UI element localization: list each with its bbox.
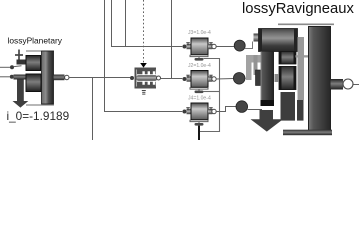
wire J4 to ravigneaux carrier	[216, 107, 236, 112]
ravigneaux carrier light column right	[298, 37, 305, 100]
ravigneaux bottom housing bar	[283, 130, 332, 136]
ravigneaux flange stub sun1 shaft	[254, 34, 259, 42]
svg-text:J4=1.0e-4: J4=1.0e-4	[188, 96, 211, 102]
node ravigneaux connector 1	[234, 40, 245, 51]
planetary sun shaft	[14, 75, 27, 80]
ravigneaux long planet gear	[259, 29, 298, 52]
wire under loss arrow	[248, 109, 262, 111]
clutch C1 friction teeth bottom	[137, 82, 156, 87]
node ravigneaux connector 3	[236, 101, 248, 113]
inertia J3	[183, 38, 217, 61]
clutch C1 housing	[135, 68, 157, 89]
wire connector1 to stub	[245, 42, 253, 49]
wire branch down from main axis	[92, 78, 94, 141]
ravigneaux carrier top line	[278, 23, 334, 25]
wire planetary output to clutch	[69, 77, 130, 79]
clutch C1 control arrow	[140, 63, 147, 68]
wire dashed control signal to clutch	[143, 0, 145, 63]
svg-text:J2=1.0e-4: J2=1.0e-4	[188, 63, 211, 69]
wire sun flange_a left	[0, 76, 10, 78]
clutch C1 left flange circle	[130, 76, 134, 80]
planetary carrier bar	[17, 60, 27, 65]
inertia J4	[183, 103, 217, 126]
svg-text:lossyPlanetary: lossyPlanetary	[8, 36, 63, 46]
planetary output shaft	[54, 75, 65, 81]
node sun connector	[10, 75, 14, 79]
wire gear mesh line top	[26, 50, 54, 52]
wire gear mesh line bottom	[26, 104, 54, 106]
node carrier connector	[10, 65, 14, 69]
wire support bus vertical	[200, 92, 220, 132]
ravigneaux short planet shaft stub	[275, 74, 280, 82]
inertia J2	[183, 71, 217, 94]
ravigneaux sun2 gear upper block	[279, 52, 296, 65]
svg-text:i_0=-1.9189: i_0=-1.9189	[7, 109, 70, 123]
wire vertical 3 from top tee	[125, 0, 127, 47]
planetary planet gear block	[26, 56, 41, 71]
ravigneaux short planet block	[279, 66, 296, 89]
node planetary output flange	[65, 75, 69, 79]
ravigneaux lower dark mass	[281, 92, 296, 121]
wire carrier stub	[14, 65, 22, 68]
clutch C1 friction teeth top	[137, 70, 156, 75]
ground fixed of planetary ring	[15, 50, 23, 61]
ravigneaux long planet right cap	[294, 29, 298, 52]
wire J2 support to bus	[204, 91, 220, 93]
ravigneaux long planet left cap	[259, 29, 263, 52]
power loss arrow of planetary	[13, 80, 29, 108]
wire carrier flange_a left	[0, 66, 10, 68]
wire connector2 to sun1	[245, 77, 251, 79]
power loss arrow of ravigneaux	[251, 110, 284, 132]
svg-text:lossyRavigneaux: lossyRavigneaux	[242, 1, 354, 17]
ravigneaux carrier bar to ring light	[296, 55, 309, 57]
wire clutch to J2	[161, 78, 183, 80]
ravigneaux output shaft	[331, 79, 344, 90]
wire J3 to ravigneaux sun1	[216, 46, 234, 48]
wire J2 to ravigneaux sun2	[216, 78, 233, 81]
ravigneaux sun1 shaft thin column	[254, 55, 258, 75]
ravigneaux carrier column	[261, 52, 275, 107]
ravigneaux sun2 shaft light column	[246, 55, 252, 80]
ravigneaux sun1 gear block	[256, 70, 261, 86]
planetary ring gear bar	[42, 51, 54, 104]
wire J4 support to fixed below	[198, 126, 200, 140]
node clutch right flange	[157, 76, 161, 80]
ravigneaux carrier column bottom cap	[261, 100, 275, 106]
clutch C1 shaft	[137, 75, 158, 81]
ravigneaux carrier right column lower dark	[297, 100, 304, 121]
wire vertical 2 from top to J3	[112, 0, 183, 47]
wire vertical to J4 from top	[105, 0, 183, 112]
clutch C1 name text	[142, 91, 146, 95]
wire vertical 4 from top tee to axis	[171, 0, 173, 79]
wire J3 support to bus	[204, 59, 220, 92]
planetary sun gear block	[26, 74, 41, 92]
node ravigneaux output flange	[343, 79, 353, 89]
wire ravigneaux output to right edge	[353, 84, 359, 86]
node ravigneaux connector 2	[233, 73, 245, 85]
ravigneaux ring gear bar	[309, 27, 331, 131]
svg-text:J3=1.0e-4: J3=1.0e-4	[188, 30, 211, 36]
ravigneaux sun2 shaft light bar	[246, 55, 261, 63]
